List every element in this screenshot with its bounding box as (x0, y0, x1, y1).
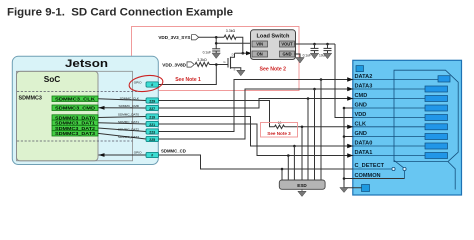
card stub GND1 (353, 107, 426, 109)
card contact pad DATA3 (425, 86, 448, 92)
resistor R1 3.3k (224, 29, 236, 40)
card stub DATA1 (353, 155, 426, 157)
junction COMMON (343, 177, 346, 180)
junction C_DETECT/ESD (281, 168, 284, 171)
svg-text:223: 223 (149, 130, 155, 134)
svg-text:CMD: CMD (355, 93, 368, 99)
arrow DAT0 into card (347, 144, 353, 148)
arrow into ON pin (246, 51, 252, 55)
wire SDMMC_DAT2 (159, 80, 353, 132)
signal box SDMMC3_DAT0 (52, 115, 98, 122)
ESD tap wire CLK (301, 127, 303, 180)
capacitor C2 0.1uF (303, 44, 319, 58)
svg-text:ESD: ESD (297, 183, 307, 188)
svg-text:SDMMC3: SDMMC3 (19, 95, 42, 101)
svg-text:3.3kΩ: 3.3kΩ (197, 58, 207, 62)
wire R2 to gate (210, 64, 229, 66)
svg-text:219: 219 (149, 115, 155, 119)
wire SDMMC_CLK (Jetson to card, through note-3 resistor) (159, 101, 275, 127)
svg-text:SDMMC3_CMD: SDMMC3_CMD (55, 106, 96, 112)
card top mount pad (356, 66, 364, 72)
junction VIN feed (215, 42, 218, 45)
card contact pad CMD (425, 96, 448, 102)
svg-text:VDD: VDD (355, 112, 367, 118)
arrow GPIO2 into SoC (99, 153, 105, 157)
SDMMC3 section divider (dashed) (17, 91, 146, 93)
ground (C2) (310, 53, 318, 59)
card contact pad DATA0 (425, 143, 448, 149)
card contact pad GND2 (425, 134, 448, 140)
ESD tap wire CMD (307, 99, 309, 181)
Jetson module box (12, 56, 158, 164)
SD card connector J1 body (353, 60, 462, 195)
card bottom mount pad (362, 185, 370, 192)
svg-text:SDMMC_DAT2: SDMMC_DAT2 (118, 127, 139, 131)
pin box 225 (146, 136, 159, 141)
card contact pad GND1 (425, 105, 448, 111)
svg-text:10: 10 (278, 121, 282, 125)
wire VDD feed to card (335, 44, 353, 118)
ground (C1) (212, 53, 220, 59)
svg-text:SDMMC3_CLK: SDMMC3_CLK (55, 97, 96, 103)
arrow DAT1 into card (347, 153, 353, 157)
svg-text:SDMMC_DAT1: SDMMC_DAT1 (118, 120, 139, 124)
pin box 221 (146, 121, 159, 126)
svg-text:CLK: CLK (355, 122, 367, 128)
svg-text:GPIO: GPIO (134, 80, 142, 84)
arrow into SDMMC3_CMD (99, 106, 105, 110)
capacitor C3 10uF (319, 44, 332, 58)
svg-text:#: # (151, 83, 153, 87)
signal box SDMMC3_CLK (52, 96, 98, 103)
net VDD_3V8D (162, 62, 194, 68)
svg-text:See Note 3: See Note 3 (267, 131, 291, 136)
annotation ellipse around GPIO pin (128, 73, 164, 93)
ESD suppressor U2 (279, 180, 325, 189)
svg-text:SDMMC3_DAT3: SDMMC3_DAT3 (55, 131, 95, 137)
svg-text:D: D (232, 53, 234, 57)
svg-text:S: S (234, 68, 236, 72)
svg-text:0.1uF: 0.1uF (203, 51, 211, 55)
pin box GPIO # (bottom) (146, 152, 159, 157)
svg-text:VOUT: VOUT (281, 42, 293, 47)
ESD tap wire DATA0 (293, 146, 295, 180)
arrow CMD into card (347, 96, 353, 100)
SDMMC3 section divider 2 (dashed) (17, 140, 133, 142)
net VDD_3V3_SYS (158, 35, 198, 40)
svg-text:SDMMC_DAT3: SDMMC_DAT3 (118, 135, 139, 139)
resistor R3 (series CLK damping) (275, 125, 285, 129)
card stub DATA3 (353, 88, 426, 90)
ESD tap wire C_DETECT (281, 169, 283, 180)
wire VDD_3V3_SYS rail (199, 36, 224, 38)
junction C3 tap (326, 43, 329, 46)
ESD tap wire DATA2 (320, 80, 322, 181)
wire R1 to VIN (236, 37, 243, 53)
svg-text:DATA0: DATA0 (355, 141, 373, 147)
ground (C3) (323, 53, 331, 59)
SoC block (17, 71, 133, 161)
pin box 229 (146, 98, 159, 103)
load switch U1 (251, 30, 296, 60)
card contact pad CLK (425, 124, 448, 130)
capacitor C1 0.1uF (203, 49, 221, 55)
svg-text:VDD_3V3_SYS: VDD_3V3_SYS (158, 35, 190, 40)
card inner outline (394, 70, 458, 161)
svg-text:GND: GND (355, 131, 367, 137)
svg-text:GND: GND (282, 52, 291, 57)
svg-text:See Note 2: See Note 2 (260, 67, 287, 73)
svg-text:GPIO: GPIO (134, 150, 142, 154)
junction GND2 (343, 135, 346, 138)
svg-text:225: 225 (149, 138, 155, 142)
svg-text:VIN: VIN (256, 42, 263, 47)
wire VIN feed (215, 37, 217, 49)
arrow DAT2 into card (347, 77, 353, 81)
ground (load switch GND) (296, 58, 304, 64)
svg-text:SoC: SoC (44, 74, 61, 84)
card stub DATA2 (353, 79, 440, 81)
pin box 223 (146, 129, 159, 134)
pin box 219 (146, 114, 159, 119)
pin box 227 (146, 105, 159, 110)
wire CLK SoC to pin (98, 99, 146, 101)
card contact pad DATA2 (438, 76, 450, 82)
junction CMD/ESD (307, 97, 310, 100)
svg-text:221: 221 (149, 123, 155, 127)
junction drain/ON (242, 52, 245, 55)
card contact pad VDD (425, 115, 448, 121)
card stub VDD (353, 117, 426, 119)
wire GPIO1 to gate node (159, 65, 217, 85)
wire SDMMC_DAT1 (159, 124, 353, 156)
card stub CLK (353, 126, 426, 128)
junction DAT3/ESD (313, 88, 316, 91)
signal box SDMMC3_DAT3 (52, 131, 98, 138)
svg-text:SDMMC_CD: SDMMC_CD (161, 149, 186, 154)
junction DAT2/ESD (320, 78, 323, 81)
wire GPIO2 inside SoC (99, 154, 147, 156)
svg-text:C_DETECT: C_DETECT (355, 163, 385, 169)
ground (bus) (340, 188, 348, 193)
ground (Q1 source) (237, 70, 245, 76)
wire DAT0 SoC to pin (98, 116, 146, 119)
ESD tap wire DATA3 (314, 89, 316, 180)
card detect switch (353, 160, 406, 178)
svg-text:SDMMC_CMD: SDMMC_CMD (119, 104, 140, 108)
wire SDMMC_CD (GPIO to card detect) (159, 155, 353, 169)
svg-text:3.3kΩ: 3.3kΩ (226, 29, 236, 33)
wire DAT1 SoC to pin (98, 123, 146, 124)
pin box GPIO # (top) (146, 82, 159, 87)
junction CLK/ESD (301, 126, 304, 129)
svg-text:#: # (151, 153, 153, 157)
svg-text:0.1uF: 0.1uF (303, 54, 311, 58)
wire SDMMC_DAT3 (159, 89, 353, 139)
card stub CMD (353, 98, 426, 100)
wire GND pin (295, 54, 301, 58)
wire DAT3 SoC to pin (98, 133, 146, 139)
wire CMD SoC to pin (99, 107, 147, 109)
wire drain to ON pin (235, 52, 249, 54)
ESD tap wire DATA1 (287, 156, 289, 181)
junction C1 tap (215, 36, 218, 39)
junction C2 tap (313, 43, 316, 46)
svg-text:G: G (223, 60, 225, 64)
signal box SDMMC3_CMD (52, 105, 98, 112)
svg-text:ON: ON (257, 52, 263, 57)
wire SDMMC_CMD (Jetson to card) (159, 99, 353, 109)
svg-text:227: 227 (149, 107, 155, 111)
card stub DATA0 (353, 145, 426, 147)
note region box (red outline around power section) (132, 27, 300, 91)
annotation See Note 3 box (261, 123, 298, 138)
ground bus wire (344, 108, 405, 189)
svg-text:VDD_3V8D: VDD_3V8D (162, 62, 186, 67)
card inner outline lower flap (448, 162, 455, 190)
junction DAT1/ESD (287, 154, 290, 157)
svg-text:DATA2: DATA2 (355, 74, 373, 80)
svg-text:229: 229 (149, 99, 155, 103)
arrow CLK into card (347, 125, 353, 129)
junction GND1 (343, 107, 346, 110)
svg-text:SDMMC_CLK: SDMMC_CLK (120, 96, 140, 100)
svg-text:DATA3: DATA3 (355, 84, 373, 90)
signal box SDMMC3_DAT1 (52, 120, 98, 127)
card contact pad DATA1 (425, 153, 448, 159)
signal box SDMMC3_DAT2 (52, 125, 98, 131)
svg-text:Figure 9-1. SD Card Connectio: Figure 9-1. SD Card Connection Example (7, 7, 233, 19)
ground (ESD) (298, 189, 306, 196)
svg-text:See Note 1: See Note 1 (175, 77, 201, 83)
svg-text:Load Switch: Load Switch (257, 34, 291, 40)
wire SDMMC_DAT0 (159, 117, 353, 147)
svg-text:DATA1: DATA1 (355, 150, 373, 156)
svg-text:SDMMC_DAT0: SDMMC_DAT0 (118, 112, 139, 116)
transistor Q1 (NMOS) (223, 53, 240, 72)
wire DAT2 SoC to pin (98, 128, 146, 131)
junction DAT0/ESD (293, 145, 296, 148)
resistor R2 3.3k (195, 58, 210, 67)
card stub GND2 (353, 136, 426, 138)
svg-text:Jetson: Jetson (65, 58, 108, 70)
arrow DAT3 into card (347, 87, 353, 91)
svg-text:GND: GND (355, 103, 367, 109)
wire VOUT rail (295, 43, 336, 45)
node A junction (gate node) (215, 63, 218, 66)
